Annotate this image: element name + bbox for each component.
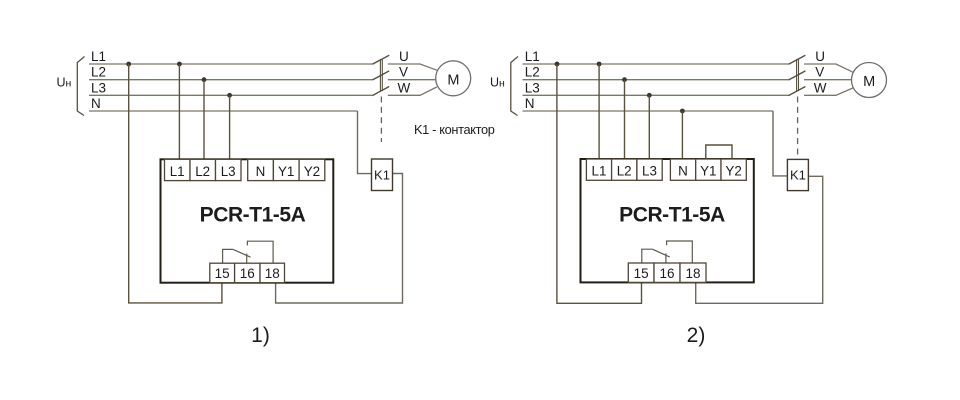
wire N to contactor coil K1 (diagram 2) [773,111,787,176]
svg-text:15: 15 [215,266,230,281]
wire U to motor (diagram 2) [804,64,853,72]
wire N to terminal N (diagram 2) [681,111,683,159]
svg-text:N: N [678,164,688,179]
motor M (diagram 1) [436,61,471,96]
svg-text:N: N [525,96,535,111]
wire V to motor (diagram 1) [388,79,436,81]
contactor K1 main contact L3 blade (diagram 2) [789,87,806,96]
svg-text:PCR-T1-5A: PCR-T1-5A [619,203,725,226]
svg-text:Y2: Y2 [304,164,320,179]
svg-text:2): 2) [687,324,706,347]
junction dot N (diagram 2) [680,109,685,114]
contactor K1 main contact L3 blade (diagram 1) [372,87,389,96]
junction dot L3 (diagram 1) [227,93,232,98]
terminal L3 (diagram 1) [216,159,242,180]
svg-text:U: U [815,49,825,64]
contactor K1 main contact L1 blade (diagram 1) [372,55,389,64]
contactor K1 main contact L1 blade (diagram 2) [789,55,806,64]
svg-text:L1: L1 [592,164,607,179]
wire L3 bus (diagram 1) [89,94,372,96]
svg-text:Y2: Y2 [725,164,741,179]
wire L1 to terminal 15 via left loop (diagram 1) [129,64,222,303]
terminal L1 (diagram 2) [586,159,611,180]
contactor K1 actuator dashed link (diagram 2) [797,97,799,160]
svg-text:L2: L2 [91,65,106,80]
terminal Y2 (diagram 2) [721,159,746,180]
wire N bus (diagram 2) [523,110,774,112]
contactor K1 main contact L2 blade (diagram 2) [789,71,806,80]
contactor coil K1 (diagram 2) [787,159,808,190]
contactor K1 mechanical link bars (diagram 1) [380,59,382,91]
svg-text:L1: L1 [91,49,106,64]
terminal L2 (diagram 1) [190,159,216,180]
junction dot L2 (diagram 1) [202,77,207,82]
wire W to motor (diagram 2) [804,88,853,95]
wire L1 bus (diagram 1) [89,63,372,65]
relay PCR-T1-5A body (diagram 1) [161,159,334,282]
wire L2 to terminal L2 (diagram 1) [203,80,205,160]
wire contactor coil K1 to terminal 18 (diagram 2) [696,176,823,303]
wire U to motor (diagram 1) [388,64,437,70]
svg-text:K1 - контактор: K1 - контактор [414,122,495,137]
terminal L3 (diagram 2) [637,159,662,180]
svg-text:Uн: Uн [57,75,72,89]
junction dot L1-a (diagram 2) [555,62,560,67]
svg-text:L2: L2 [525,65,540,80]
junction dot L1-a (diagram 1) [126,62,131,67]
terminal 15 (diagram 1) [210,263,235,283]
terminal 18 (diagram 1) [260,263,285,283]
motor M (diagram 2) [852,63,887,98]
wire L3 to terminal L3 (diagram 1) [229,95,231,159]
terminal 18 (diagram 2) [680,263,706,282]
wire L1 bus (diagram 2) [523,63,789,65]
wire L2 to terminal L2 (diagram 2) [624,80,626,159]
svg-text:L3: L3 [221,164,236,179]
relay changeover contact symbol (diagram 2) [642,241,693,263]
svg-text:K1: K1 [374,168,390,183]
wire L3 bus (diagram 2) [523,94,789,96]
svg-text:W: W [814,80,827,95]
terminal 15 (diagram 2) [628,263,654,282]
svg-text:W: W [398,80,411,95]
terminal 16 (diagram 2) [654,263,680,282]
svg-text:L3: L3 [91,80,106,95]
brace for supply Uн (diagram 1) [77,57,84,116]
junction dot L2 (diagram 2) [622,77,627,82]
wire L1 to terminal 15 via left loop (diagram 2) [557,64,642,303]
terminal N (diagram 1) [248,159,274,180]
terminal Y2 (diagram 1) [299,159,325,180]
svg-text:M: M [447,72,459,88]
svg-text:L1: L1 [170,164,185,179]
contactor coil K1 (diagram 1) [372,159,393,191]
contactor K1 main contact L2 blade (diagram 1) [372,71,389,80]
svg-text:16: 16 [659,266,674,281]
svg-text:16: 16 [240,266,255,281]
wire N bus (diagram 1) [89,110,358,112]
svg-text:V: V [399,65,408,80]
svg-text:L1: L1 [525,49,540,64]
svg-text:Y1: Y1 [278,164,294,179]
junction dot L3 (diagram 2) [647,93,652,98]
svg-text:L2: L2 [195,164,210,179]
junction dot L1-b (diagram 1) [177,62,182,67]
wire L2 bus (diagram 2) [523,79,789,81]
svg-text:18: 18 [685,266,700,281]
wire L2 bus (diagram 1) [89,79,372,81]
wire V to motor (diagram 2) [804,79,852,81]
terminal N (diagram 2) [670,159,695,180]
svg-text:Uн: Uн [490,75,505,89]
svg-text:L3: L3 [525,80,540,95]
wire L3 to terminal L3 (diagram 2) [648,95,650,159]
terminal Y1 (diagram 1) [273,159,299,180]
svg-text:1): 1) [251,324,270,347]
wire W to motor (diagram 1) [388,87,437,95]
svg-text:N: N [91,96,101,111]
svg-text:Y1: Y1 [700,164,716,179]
svg-text:15: 15 [634,266,649,281]
terminal L2 (diagram 2) [612,159,637,180]
svg-text:L2: L2 [617,164,632,179]
terminal 16 (diagram 1) [235,263,260,283]
svg-text:K1: K1 [790,168,806,183]
wire L1 to terminal L1 (diagram 1) [178,64,180,159]
svg-text:L3: L3 [642,164,657,179]
terminal L1 (diagram 1) [165,159,191,180]
wire N to contactor coil K1 (diagram 1) [358,111,372,174]
junction dot L1-b (diagram 2) [597,62,602,67]
contactor K1 actuator dashed link (diagram 1) [380,97,382,143]
brace for supply Uн (diagram 2) [511,57,518,116]
wire contactor coil K1 to terminal 18 (diagram 1) [276,174,403,304]
wire L1 to terminal L1 (diagram 2) [598,64,600,159]
svg-text:V: V [815,65,824,80]
relay changeover contact symbol (diagram 1) [223,241,274,263]
contactor K1 mechanical link bars (diagram 2) [797,59,799,91]
jumper wire Y1 to Y2 (diagram 2) [706,145,732,159]
relay PCR-T1-5A body (diagram 2) [581,159,754,282]
svg-text:U: U [399,49,409,64]
svg-text:PCR-T1-5A: PCR-T1-5A [200,204,306,227]
svg-text:18: 18 [265,266,280,281]
svg-text:M: M [863,74,875,90]
terminal Y1 (diagram 2) [696,159,721,180]
svg-text:N: N [256,164,266,179]
